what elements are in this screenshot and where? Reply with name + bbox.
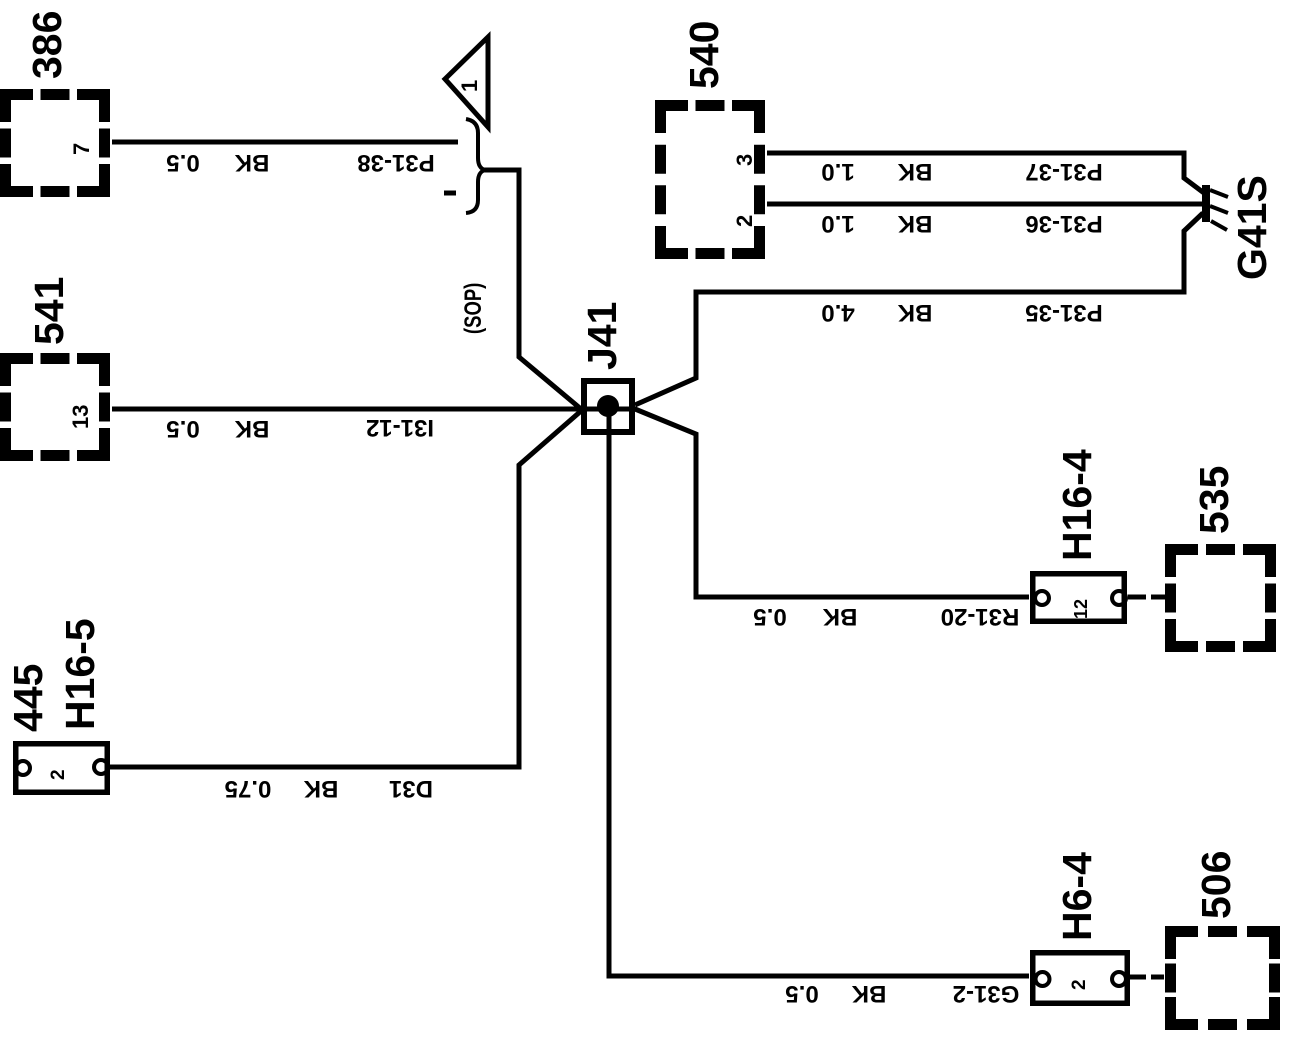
svg-text:I31-12: I31-12 xyxy=(366,414,434,441)
svg-text:0.5: 0.5 xyxy=(753,603,786,630)
svg-text:G31-2: G31-2 xyxy=(953,980,1020,1007)
wire G31-2 from J41 to splice H6-4 xyxy=(609,410,1029,976)
svg-text:1: 1 xyxy=(457,80,482,92)
svg-text:13: 13 xyxy=(68,405,93,429)
connector 535 xyxy=(1171,466,1271,647)
svg-text:H6-4: H6-4 xyxy=(1054,852,1100,941)
ground G41S xyxy=(1202,175,1275,280)
svg-text:2: 2 xyxy=(1069,979,1090,990)
svg-text:BK: BK xyxy=(897,210,932,237)
wire P31-36 from 540-2 to ground G41S xyxy=(767,202,1203,207)
svg-text:4.0: 4.0 xyxy=(821,299,854,326)
wire P31-35 from J41 to ground G41S xyxy=(635,213,1203,405)
svg-text:1.0: 1.0 xyxy=(821,210,854,237)
svg-text:2: 2 xyxy=(732,215,757,227)
svg-text:BK: BK xyxy=(897,158,932,185)
connector 541 xyxy=(6,277,105,456)
svg-text:H16-4: H16-4 xyxy=(1054,449,1100,561)
brace grouping wires xyxy=(466,119,485,213)
connector 506 xyxy=(1171,851,1275,1025)
svg-text:P31-36: P31-36 xyxy=(1025,210,1102,237)
svg-text:7: 7 xyxy=(69,143,94,155)
svg-text:445: 445 xyxy=(5,664,51,732)
svg-text:D31: D31 xyxy=(389,775,433,802)
wire P31-37 from 540-3 to ground G41S xyxy=(767,153,1204,193)
svg-text:12: 12 xyxy=(1071,599,1091,619)
svg-text:506: 506 xyxy=(1193,851,1239,919)
wire stub from H6-4 to connector 506 xyxy=(1126,975,1164,980)
svg-text:BK: BK xyxy=(897,299,932,326)
connector 540 xyxy=(661,21,760,254)
connector 386 xyxy=(6,11,105,192)
svg-text:P31-35: P31-35 xyxy=(1025,299,1102,326)
svg-text:0.5: 0.5 xyxy=(166,149,199,176)
splice H6-4 xyxy=(1033,852,1128,1003)
splice H16-5 (component 445) xyxy=(5,618,108,792)
svg-text:(SOP): (SOP) xyxy=(460,283,487,334)
svg-text:P31-37: P31-37 xyxy=(1025,158,1102,185)
svg-text:0.5: 0.5 xyxy=(166,415,199,442)
svg-text:R31-20: R31-20 xyxy=(941,603,1020,630)
svg-text:H16-5: H16-5 xyxy=(57,618,103,730)
svg-text:1.0: 1.0 xyxy=(821,158,854,185)
wire R31-20 from J41 to splice H16-4 xyxy=(635,409,1029,597)
wire I31-12 from 541-13 to J41 xyxy=(112,407,637,412)
stub dash below brace xyxy=(444,191,456,196)
svg-text:0.75: 0.75 xyxy=(225,775,272,802)
svg-text:G41S: G41S xyxy=(1229,175,1275,280)
svg-text:BK: BK xyxy=(822,603,857,630)
svg-text:P31-38: P31-38 xyxy=(357,149,434,176)
splice H16-4 xyxy=(1033,449,1126,621)
svg-text:J41: J41 xyxy=(579,302,625,370)
svg-text:BK: BK xyxy=(851,980,886,1007)
svg-text:535: 535 xyxy=(1191,466,1237,534)
svg-text:0.5: 0.5 xyxy=(785,980,818,1007)
svg-text:540: 540 xyxy=(681,21,727,89)
svg-text:BK: BK xyxy=(303,775,338,802)
wire D31 from H16-5 to J41 xyxy=(109,411,581,767)
svg-text:BK: BK xyxy=(234,415,269,442)
junction J41 xyxy=(579,302,632,432)
wire P31-38 from 386-7 to brace xyxy=(112,140,458,145)
svg-text:3: 3 xyxy=(732,154,757,166)
wire from brace to junction J41 xyxy=(484,170,581,409)
svg-text:2: 2 xyxy=(48,769,69,780)
wire stub from H16-4 to connector 535 xyxy=(1128,595,1167,600)
footnote triangle 1 xyxy=(445,37,488,127)
svg-text:386: 386 xyxy=(24,11,70,79)
svg-text:541: 541 xyxy=(26,277,72,345)
svg-text:BK: BK xyxy=(234,149,269,176)
